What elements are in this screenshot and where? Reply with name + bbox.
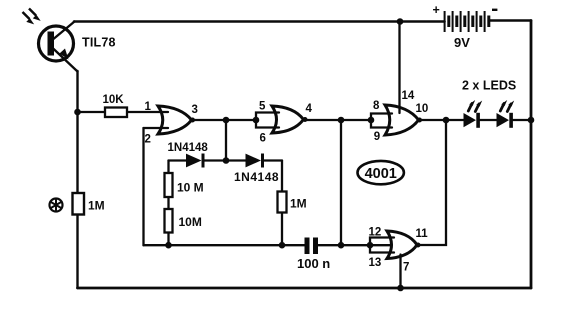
svg-text:4001: 4001 [365, 166, 397, 182]
wire pin1 stub into gate [160, 111, 168, 113]
wire LED segment 3 [512, 119, 531, 121]
svg-text:12: 12 [369, 226, 382, 238]
bubble U1d output [416, 243, 421, 248]
wire diode row middle segment [205, 159, 247, 161]
phototransistor Q1 TIL78 [39, 26, 74, 61]
node 1M bottom junction [279, 242, 286, 249]
gate U1c pins 8 9 10 [385, 105, 419, 135]
svg-text:7: 7 [403, 262, 409, 274]
battery BT1 9V [444, 11, 491, 32]
node U1d input junction [367, 242, 374, 249]
wire pin 14 supply into U1c [398, 22, 400, 114]
wire gate U1b output to U1c input [307, 119, 371, 121]
svg-text:3: 3 [192, 104, 198, 116]
gate U1b pins 5 6 4 [272, 106, 304, 133]
svg-text:4: 4 [306, 103, 313, 115]
wire pin2 stub into gate [160, 127, 168, 129]
node LED left junction [443, 117, 450, 124]
light arrow 1 into Q1 [23, 12, 35, 24]
wire diode row right segment [264, 159, 283, 161]
svg-text:1N4148: 1N4148 [234, 170, 279, 184]
svg-text:100 n: 100 n [297, 256, 330, 271]
wire pin 7 ground from U1d [399, 255, 401, 289]
diode D1 1N4148 [186, 154, 205, 168]
node pin7 ground junction [397, 285, 404, 292]
bubble U1b output [303, 117, 308, 122]
wire U1c input fork [371, 114, 392, 128]
resistor 1M right [278, 192, 287, 213]
svg-text:2 x LEDS: 2 x LEDS [462, 79, 516, 93]
wire LED node riser to U1d output [420, 120, 446, 245]
svg-text:10K: 10K [103, 94, 125, 106]
wire left rail emitter to bottom [76, 71, 78, 288]
wire junction J1 drop to diode row [225, 120, 227, 161]
wire top rail V+ [74, 20, 445, 23]
node J2 bottom junction [338, 242, 345, 249]
svg-text:9: 9 [374, 131, 380, 143]
svg-text:10 M: 10 M [177, 181, 204, 195]
wire pin 2 feedback stub [144, 127, 168, 129]
bubble U1a output [190, 118, 195, 123]
resistor 10M lower [165, 209, 173, 233]
diode D2 1N4148 [246, 154, 265, 168]
capacitor C1 100n [305, 238, 319, 255]
battery minus sign [492, 9, 497, 11]
wire LED segment 1 [446, 119, 464, 121]
svg-text:1M: 1M [88, 199, 105, 213]
wire right rail [530, 21, 533, 289]
svg-text:+: + [433, 3, 440, 17]
resistor 10M upper [165, 173, 173, 197]
wire capacitor right to gate U1d inputs [318, 244, 394, 246]
wire collector of Q1 to top rail [51, 22, 75, 42]
LED D3 arrows [468, 100, 482, 112]
wire LED segment 2 [480, 119, 497, 121]
see-text symbol circled asterisk [50, 199, 63, 212]
wire 10K branch from node A [78, 111, 106, 113]
node J2 gate2 out junction [338, 117, 345, 124]
bubble U1c output [417, 118, 422, 123]
wire battery negative lead [490, 19, 532, 22]
svg-text:10M: 10M [179, 215, 202, 229]
svg-text:14: 14 [402, 90, 415, 102]
LED D3 [464, 113, 480, 128]
resistor 1M left [73, 193, 85, 215]
svg-text:1N4148: 1N4148 [168, 142, 209, 154]
node top rail pin14 junction [397, 18, 404, 25]
node diode row junction [223, 157, 230, 164]
wire junction J2 drop to gate U1d input [340, 120, 342, 245]
light arrow 2 into Q1 [29, 9, 41, 21]
svg-text:11: 11 [416, 228, 429, 240]
wire 1M right vertical [281, 161, 283, 246]
svg-text:5: 5 [259, 101, 266, 113]
wire U1d input fork [370, 238, 394, 253]
node U1c input junction [368, 117, 375, 124]
svg-text:13: 13 [369, 257, 382, 269]
svg-text:1: 1 [145, 101, 152, 113]
node LED right rail junction [528, 117, 535, 124]
wire bottom rail ground [78, 287, 532, 290]
svg-text:TIL78: TIL78 [82, 36, 116, 50]
LED D4 [497, 113, 513, 128]
resistor 10K [105, 108, 127, 118]
node J1 gate1 out junction [223, 117, 230, 124]
wire feedback left frame vertical [142, 128, 144, 245]
node A emitter 10K junction [74, 109, 81, 116]
wire gate U1a output to U1b input [194, 119, 256, 121]
gate U1a pins 1 2 3 [158, 106, 192, 134]
wire diode row left segment [169, 159, 188, 161]
wire emitter diagonal of Q1 [51, 47, 78, 72]
node U1b input junction [253, 117, 260, 124]
wire U1b input fork [256, 113, 279, 128]
wire gate U1c output to LED node [421, 119, 446, 121]
gate U1d pins 12 13 11 [387, 231, 417, 259]
node 10M bottom junction [165, 242, 172, 249]
wire feedback bottom to capacitor [144, 244, 305, 246]
IC label ellipse 4001 [358, 161, 404, 184]
svg-text:9V: 9V [454, 35, 470, 50]
svg-text:1M: 1M [290, 197, 307, 211]
LED D4 arrows [500, 100, 514, 112]
svg-text:8: 8 [373, 100, 380, 112]
svg-text:2: 2 [145, 134, 151, 146]
wire 10K to pin 1 of U1a [127, 111, 167, 113]
svg-text:6: 6 [260, 132, 266, 144]
wire 10M chain vertical [167, 161, 169, 246]
svg-text:10: 10 [416, 103, 429, 115]
